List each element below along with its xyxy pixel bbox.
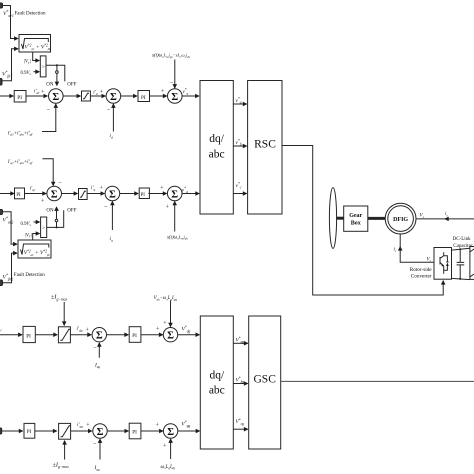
svg-text:PI: PI xyxy=(27,429,32,435)
svg-text:PI: PI xyxy=(141,95,146,101)
input port row4 xyxy=(0,428,2,434)
svg-text:V*dg: V*dg xyxy=(182,326,191,334)
svg-text:OFF: OFF xyxy=(67,208,76,213)
svg-text:+: + xyxy=(156,327,160,333)
wire vag* to GSC xyxy=(233,342,248,344)
svg-text:V*αr1: V*αr1 xyxy=(3,9,14,18)
svg-text:Iqg: Iqg xyxy=(94,465,101,472)
wire S3b to dq/abc xyxy=(182,193,199,195)
block saturation row4 xyxy=(59,423,71,439)
svg-text:+: + xyxy=(156,423,160,429)
svg-text:Gear: Gear xyxy=(349,213,362,219)
svg-text:+: + xyxy=(100,186,104,192)
wire |Vr| to comparator (row1) xyxy=(33,52,40,61)
svg-text:V*bg: V*bg xyxy=(236,377,245,384)
grid-side converter (cut off) xyxy=(470,247,474,280)
svg-text:−: − xyxy=(170,80,174,87)
svg-text:v*d: v*d xyxy=(182,187,188,194)
svg-text:Σ: Σ xyxy=(167,427,174,438)
block PI1a xyxy=(14,91,26,103)
svg-text:V*ag: V*ag xyxy=(236,337,245,344)
block PI1c xyxy=(23,326,35,342)
block dq/abc (grid) xyxy=(200,316,233,449)
svg-text:Fault Detection: Fault Detection xyxy=(15,12,46,17)
summer S2d xyxy=(163,424,177,438)
svg-text:Σ: Σ xyxy=(97,427,104,438)
wire main input row3 xyxy=(0,334,22,336)
DC link top wire xyxy=(452,248,470,250)
wire S1b to rate limiter row2 xyxy=(62,193,78,195)
wire saturation to summer S1c xyxy=(70,334,91,336)
block sqrt magnitude (row1) xyxy=(19,35,51,53)
svg-text:ir: ir xyxy=(394,248,397,254)
summer S1d xyxy=(93,424,107,438)
wire Vbeta_r1 to sqrt block xyxy=(2,49,18,81)
wire PI2b to summer S3b xyxy=(148,193,166,195)
generator DFIG xyxy=(385,203,416,234)
svg-text:RSC: RSC xyxy=(254,138,276,150)
svg-text:PI: PI xyxy=(141,193,146,198)
svg-text:+: + xyxy=(41,90,45,96)
svg-text:v′: v′ xyxy=(0,328,2,333)
switch junction node row2 xyxy=(56,226,58,228)
svg-text:Σ: Σ xyxy=(51,189,58,200)
svg-text:+: + xyxy=(163,444,167,450)
svg-text:0.9Vs: 0.9Vs xyxy=(21,222,32,227)
block PI2a xyxy=(138,91,150,102)
wire Vbeta_r2 to sqrt row2 xyxy=(3,253,18,283)
wire limiter to summer S2b xyxy=(87,193,104,195)
wind turbine blade xyxy=(329,188,336,249)
svg-text:Σ: Σ xyxy=(167,331,174,342)
rotor wire DFIG to converter xyxy=(400,234,434,262)
svg-text:i′qr: i′qr xyxy=(30,187,36,193)
svg-text:PI: PI xyxy=(132,429,137,435)
rotor current arrow (pointing down) xyxy=(399,247,401,253)
comparator block (row1) xyxy=(40,56,46,77)
block rotor-side converter xyxy=(434,248,452,280)
wire S2c to dq/abc2 xyxy=(178,334,200,336)
svg-text:0.9Vs: 0.9Vs xyxy=(21,71,32,76)
svg-text:id: id xyxy=(110,133,114,140)
svg-text:+: + xyxy=(41,199,45,205)
svg-text:s(t)ωsLmids: s(t)ωsLmids xyxy=(167,234,188,240)
svg-text:+: + xyxy=(166,205,170,211)
wire feedback into S1a bottom xyxy=(42,104,56,132)
svg-text:i′q1+i′qm+i′qf: i′q1+i′qm+i′qf xyxy=(8,159,34,165)
wire S1d to PI2d xyxy=(107,430,128,432)
input port Valpha_r2 xyxy=(0,210,3,215)
wire limiter to summer S2a xyxy=(90,95,105,97)
svg-text:V*αr2: V*αr2 xyxy=(3,216,14,225)
DC link bottom wire xyxy=(452,278,470,279)
wire vcg* to GSC xyxy=(233,428,248,430)
svg-text:−: − xyxy=(107,107,111,114)
switch pivot row2 xyxy=(56,222,58,228)
block GSC xyxy=(249,316,281,449)
wire vc* to RSC xyxy=(233,193,246,195)
svg-text:abc: abc xyxy=(209,149,225,161)
svg-text:PI: PI xyxy=(26,333,31,339)
svg-text:Σ: Σ xyxy=(110,92,117,103)
wire Ig-max into saturation bottom xyxy=(64,441,66,460)
summer S2a xyxy=(106,89,121,104)
wire RSC output to rotor-side converter xyxy=(282,146,443,296)
wire PI2c to summer S2c xyxy=(141,334,163,336)
svg-text:i′dg: i′dg xyxy=(77,327,83,333)
wire main input row4 xyxy=(2,430,23,432)
wire compensation into S3b bottom xyxy=(174,201,176,231)
converter IGBT symbol xyxy=(440,252,447,273)
svg-text:+: + xyxy=(160,186,164,192)
wire feedback Idg into S1c xyxy=(98,343,100,358)
svg-text:+: + xyxy=(161,89,165,95)
wire main input row2 xyxy=(0,193,14,195)
svg-text:i′q: i′q xyxy=(91,186,95,192)
wire PI2d to summer S2d xyxy=(141,430,163,432)
svg-text:is: is xyxy=(445,212,448,218)
svg-text:Converter: Converter xyxy=(411,274,432,280)
svg-text:V*2αr + V*2βr: V*2αr + V*2βr xyxy=(25,44,52,51)
svg-text:GSC: GSC xyxy=(254,373,277,385)
switch arm to ON row2 xyxy=(56,207,58,219)
wire S2d to dq/abc2 xyxy=(178,430,200,432)
wire S2b to PI2b xyxy=(120,193,138,195)
svg-text:Vs: Vs xyxy=(420,213,425,219)
wire comparator out to OFF terminal xyxy=(46,65,65,81)
svg-text:|Vr|: |Vr| xyxy=(24,60,31,65)
svg-text:ON: ON xyxy=(46,208,54,213)
svg-text:i′dr: i′dr xyxy=(34,90,40,96)
block RSC xyxy=(248,81,282,215)
svg-text:i′qg: i′qg xyxy=(77,423,83,429)
summer S1a xyxy=(49,89,64,104)
wire PI1b to summer S1b xyxy=(24,193,46,195)
svg-text:abc: abc xyxy=(209,385,225,397)
wire vbg* to GSC xyxy=(233,383,248,385)
svg-text:Σ: Σ xyxy=(52,92,59,103)
switch pivot xyxy=(56,65,58,71)
wire Valpha_r1 to sqrt block xyxy=(3,6,19,39)
svg-text:dq/: dq/ xyxy=(209,133,225,145)
block PI2c xyxy=(129,327,141,343)
wire feedback Iqg into S1d xyxy=(99,439,101,460)
svg-text:±Ig−max: ±Ig−max xyxy=(53,461,70,469)
block PI2d xyxy=(129,423,141,439)
svg-text:−: − xyxy=(93,345,97,352)
wire saturation to summer S1d xyxy=(71,430,92,432)
DC bus junction nodes xyxy=(459,248,461,250)
block saturation row3 xyxy=(58,327,70,343)
block PI1b xyxy=(15,188,25,199)
wire Valpha_r2 to sqrt row2 xyxy=(3,212,18,244)
svg-text:−: − xyxy=(93,441,97,448)
input port Valpha_r1 xyxy=(0,3,3,8)
svg-text:Σ: Σ xyxy=(171,189,178,200)
svg-text:−: − xyxy=(58,180,62,187)
svg-text:V*cg: V*cg xyxy=(236,418,245,425)
svg-text:>: > xyxy=(42,65,45,71)
wire compensation into S3a top xyxy=(174,60,176,89)
svg-text:v*c: v*c xyxy=(236,182,242,189)
wire feedback into S1b top xyxy=(43,159,54,186)
shaft gearbox to DFIG xyxy=(368,217,385,220)
wire PI1c to saturation xyxy=(35,334,57,336)
svg-text:PI: PI xyxy=(17,95,22,101)
input port Vbeta_r1 xyxy=(0,79,2,86)
svg-text:i′d: i′d xyxy=(93,90,97,96)
block sqrt magnitude (row2) xyxy=(18,240,51,258)
svg-text:Σ: Σ xyxy=(171,92,178,103)
wire compensation into S2d bottom xyxy=(170,439,172,459)
wire vb* to RSC xyxy=(233,145,246,147)
stator wire to grid xyxy=(416,218,474,220)
svg-text:ωsLgIdg: ωsLgIdg xyxy=(161,464,176,470)
input port Vbeta_r2 xyxy=(0,280,3,286)
svg-text:dq/: dq/ xyxy=(209,370,225,382)
svg-text:OFF: OFF xyxy=(67,82,76,87)
svg-text:V*qg: V*qg xyxy=(181,421,190,429)
svg-text:v*a: v*a xyxy=(236,97,242,104)
wire va* to RSC xyxy=(233,103,246,105)
svg-text:V*2αr + V*2βr: V*2αr + V*2βr xyxy=(24,249,51,256)
svg-text:Rotor-side: Rotor-side xyxy=(410,267,432,273)
wire S1c to PI2c xyxy=(107,334,129,336)
wire GSC output to grid-side converter xyxy=(281,380,474,382)
svg-text:+: + xyxy=(86,422,90,428)
wire S2a to PI2a xyxy=(121,95,137,97)
summer S3b xyxy=(167,186,182,201)
svg-text:Fault Detection: Fault Detection xyxy=(14,273,45,278)
svg-text:+: + xyxy=(100,90,104,96)
summer S3a xyxy=(168,89,183,104)
switch junction node xyxy=(56,64,58,66)
svg-text:−: − xyxy=(47,107,51,114)
wire Ig-max into saturation top xyxy=(63,302,65,325)
svg-text:v*q: v*q xyxy=(183,88,189,95)
block PI1d xyxy=(24,423,35,438)
wire feedback iq into S2b xyxy=(111,201,113,230)
svg-text:>: > xyxy=(42,226,45,232)
svg-text:Vds−ωsLgIqg: Vds−ωsLgIqg xyxy=(154,295,178,301)
svg-text:DC-Link: DC-Link xyxy=(453,237,472,242)
block rate limiter row2 xyxy=(79,189,88,200)
svg-text:Σ: Σ xyxy=(96,331,103,342)
wire S3a to dq/abc xyxy=(182,95,199,97)
block PI2b xyxy=(139,188,149,199)
svg-text:+: + xyxy=(163,320,167,326)
summer S1c xyxy=(92,328,106,342)
DC link capacitor xyxy=(457,249,465,279)
svg-text:|Vr|: |Vr| xyxy=(25,233,32,238)
wire feedback id into S2a xyxy=(112,104,114,132)
wire main input row1 xyxy=(0,95,13,97)
svg-text:DFIG: DFIG xyxy=(393,217,408,223)
svg-text:−: − xyxy=(104,204,108,211)
wire S1a to rate limiter xyxy=(63,95,80,97)
svg-text:PI: PI xyxy=(16,193,21,198)
stator current arrow (pointing left) xyxy=(445,218,451,220)
switch row2: comparator out to OFF xyxy=(47,210,64,227)
svg-text:i′d1+i′dm+i′df: i′d1+i′dm+i′df xyxy=(8,130,34,136)
summer S2b xyxy=(105,186,120,201)
svg-text:Σ: Σ xyxy=(109,189,116,200)
wire compensation into S2c top xyxy=(170,301,172,327)
comparator block row2 xyxy=(41,217,47,238)
wire PI1a to summer S1a xyxy=(26,95,47,97)
svg-text:v*b: v*b xyxy=(236,139,242,146)
svg-text:Idg: Idg xyxy=(94,362,101,369)
summer S1b xyxy=(47,186,62,201)
svg-text:+: + xyxy=(86,328,90,334)
wire PI1d to saturation row4 xyxy=(35,430,57,432)
block dq/abc (rotor) xyxy=(200,81,233,215)
svg-text:ON: ON xyxy=(46,82,54,87)
svg-text:s(t)ωsLmiqs−sLrωsidr: s(t)ωsLmiqs−sLrωsidr xyxy=(152,53,191,59)
summer S2c xyxy=(163,328,177,342)
block rate limiter row1 xyxy=(82,91,91,101)
wire PI2a to summer S3a xyxy=(149,95,167,97)
svg-text:Vr: Vr xyxy=(427,257,432,263)
hub shaft xyxy=(336,217,344,220)
block Gear Box xyxy=(344,206,368,231)
svg-text:iq: iq xyxy=(110,236,114,243)
svg-text:PI: PI xyxy=(132,333,137,339)
svg-text:±Ig−max: ±Ig−max xyxy=(51,294,68,302)
switch arm to ON (arrow into summer S1a) xyxy=(56,74,58,86)
svg-text:Box: Box xyxy=(351,221,361,227)
